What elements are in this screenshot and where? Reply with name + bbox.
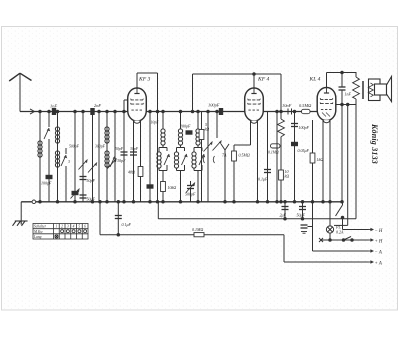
wire x267.5 with capacitor 0.1uF [258,112,271,202]
svg-text:10kΩ: 10kΩ [168,185,177,190]
tube KF3 [128,88,147,123]
svg-text:50pF: 50pF [87,178,96,183]
svg-text:1kΩ: 1kΩ [317,157,324,162]
svg-text:1: 1 [55,224,57,228]
capacitor 100pF (series) [208,103,223,115]
svg-text:50pF: 50pF [115,147,124,151]
svg-text:0.05μF: 0.05μF [298,148,310,153]
svg-text:− A: − A [375,250,382,255]
svg-text:10pF: 10pF [151,121,160,125]
B+ rail H3 [158,218,356,220]
wire x92.5 [92,112,94,202]
svg-text:− H: − H [375,229,383,234]
wire x208 [207,112,209,202]
svg-text:Lang: Lang [33,235,42,239]
svg-text:KF 4: KF 4 [257,77,270,83]
svg-text:0.1μF: 0.1μF [258,177,268,182]
svg-text:10nF: 10nF [282,103,292,108]
wire x107 [106,112,108,202]
capacitor 0.1uF (black, bottom) [71,189,80,199]
svg-text:100pF: 100pF [41,181,52,186]
KF3 anode lead [140,121,142,202]
trimmer capacitor 500pF [185,181,196,202]
svg-text:0.5MΩ: 0.5MΩ [299,103,312,108]
wire x100 H2 to H4 [99,202,101,235]
IF bank cell 3 [192,112,205,202]
connector circle on ground bus [32,200,36,204]
svg-text:300pF: 300pF [95,145,106,149]
H3 left corner riser [157,202,159,219]
svg-text:100pF: 100pF [180,124,191,129]
switch wiper arrows [204,141,222,152]
svg-text:König 3133: König 3133 [370,123,379,164]
svg-text:2: 2 [61,224,63,228]
capacitor 10nF (series, KL4 grid) [282,103,292,115]
KF4 anode lead [257,121,259,202]
wire H1 signal bus left [20,111,128,113]
KF4 top wire [193,74,282,112]
svg-text:0.5MΩ: 0.5MΩ [239,153,250,158]
svg-text:KF 3: KF 3 [138,77,151,83]
KF4 cathode lead + resistor 0.5M [232,121,251,202]
KF4 screen dropper x281: zigzag + box resistor 10k [278,74,290,202]
trimmer arrow T1 [79,160,88,170]
wire x75 [74,112,76,202]
capacitor 1nF (tone) [339,73,352,202]
junction dots H3/H4/top wires [117,71,343,241]
ground bus H2 [21,201,342,203]
KL4 cathode resistor 1k [310,120,323,251]
IF bank cell 2 [174,112,187,202]
capacitor 50pF (KF3 cathode) [115,147,128,155]
wire x150 [149,112,151,202]
ground symbol [13,221,28,226]
pilot lamp PL 0.2A [326,225,344,241]
svg-text:100pF: 100pF [299,125,310,130]
KF3 grid wire x124 [124,100,128,202]
ground lead [20,202,22,221]
svg-text:+ A: + A [375,261,382,266]
AVC line x291 with caps [291,112,310,202]
svg-text:7A: 7A [222,153,227,158]
coil L3b [105,151,109,167]
svg-text:4: 4 [73,224,75,228]
capacitor 100pF (black) [41,175,52,185]
svg-text:50μF: 50μF [87,197,96,202]
svg-text:6: 6 [84,224,86,228]
svg-text:2μF: 2μF [280,213,287,218]
switch table [33,224,88,240]
wire x275 [276,112,278,202]
trimmer arrow T3 [108,159,117,169]
junction dots H2 [39,201,344,204]
svg-text:48Ω: 48Ω [128,170,135,175]
svg-text:0.1μF: 0.1μF [122,222,132,227]
transformer core bar [362,81,364,99]
KL4 hatching [322,113,330,117]
svg-text:500pF: 500pF [185,192,196,197]
tube KF4 [245,88,264,123]
electrolytic 50uF [297,202,307,219]
capacitor 0.1uF (AVC) [115,202,132,235]
wire anode to lamp branch [334,103,349,225]
KF3 cathode lead [133,121,135,202]
tube KL4 [317,88,336,123]
pickup fork 7A [221,144,229,202]
wire x217 [216,112,218,139]
IF bank cell 1: coil + switch [157,112,170,202]
svg-text:+ H: + H [375,239,383,244]
svg-text:1nF: 1nF [345,92,352,97]
svg-text:KL 4: KL 4 [309,77,321,83]
capacitor 100pF (coupling, black) [180,124,192,135]
contact springs [203,156,214,163]
KL4 lead x323 [322,121,324,202]
coil L2a [55,127,59,143]
junction dots H1 [39,110,296,113]
svg-text:30pF: 30pF [117,158,126,163]
svg-text:3: 3 [68,159,70,164]
loudspeaker [368,77,391,102]
svg-text:kΩ: kΩ [285,174,290,179]
terminal +A [284,260,382,266]
coil L3a [105,127,109,143]
resistor 10k [161,182,177,192]
wire H1 middle [147,111,246,113]
svg-text:0.1MΩ: 0.1MΩ [192,227,203,232]
capacitor 1nF (series, antenna) [50,104,57,115]
svg-text:1nF: 1nF [50,104,57,109]
svg-text:50μF: 50μF [297,213,306,218]
svg-text:2nF: 2nF [94,103,101,108]
resistor 0.5M grid stopper [299,103,312,114]
antenna [9,73,31,111]
resistor 5k [199,112,209,202]
terminal +H with contact [319,237,383,245]
capacitor 30pF [130,147,139,155]
svg-text:M.Kw: M.Kw [33,230,43,234]
cathode bypass cap with ground [301,225,313,233]
wire x40 [39,112,41,202]
svg-text:3: 3 [67,224,69,228]
wire x115 [114,112,116,202]
arrow on antenna lead [30,109,35,114]
KF3 top cap wire [137,73,158,88]
svg-text:5: 5 [78,224,80,228]
KL4 lead x330 [329,121,331,227]
resistor 48 ohm [128,167,143,177]
switch S1 [44,112,50,202]
terminal -A [313,249,382,255]
electrolytic 2uF [280,202,289,219]
svg-text:30pF: 30pF [130,147,139,151]
wire x99 [98,112,100,202]
switch S2 [61,148,70,202]
wire x83 [82,112,84,202]
KL4 top wire [327,73,357,88]
capacitor 2nF (series) [91,103,102,115]
trimmer arrow T2 [88,163,97,173]
capacitor (black) on x150 [147,185,153,188]
output choke zigzag [353,73,360,219]
svg-text:100pF: 100pF [208,103,220,108]
svg-text:500pF: 500pF [69,145,80,149]
KL4 anode wire [336,104,357,106]
svg-text:Schalter: Schalter [34,225,47,229]
capacitor 50pF [80,177,96,184]
resistor 0.1M horizontal [268,144,280,155]
+A corner [283,235,285,262]
mains switch [336,202,344,230]
switch S3 [110,156,126,167]
wire H1 right [263,111,319,113]
AVC rail H4 [100,234,284,236]
coil L1 [38,141,42,157]
resistor 0.1M (AVC) [192,227,204,237]
svg-text:kΩ: kΩ [205,127,210,132]
svg-text:0.2A: 0.2A [336,230,344,235]
wire x57.5 [57,112,59,202]
coil L2b [55,151,59,167]
terminal -H [343,228,383,234]
KF3 screen wire x157.5 [157,73,159,202]
capacitor 50uF [80,195,96,202]
